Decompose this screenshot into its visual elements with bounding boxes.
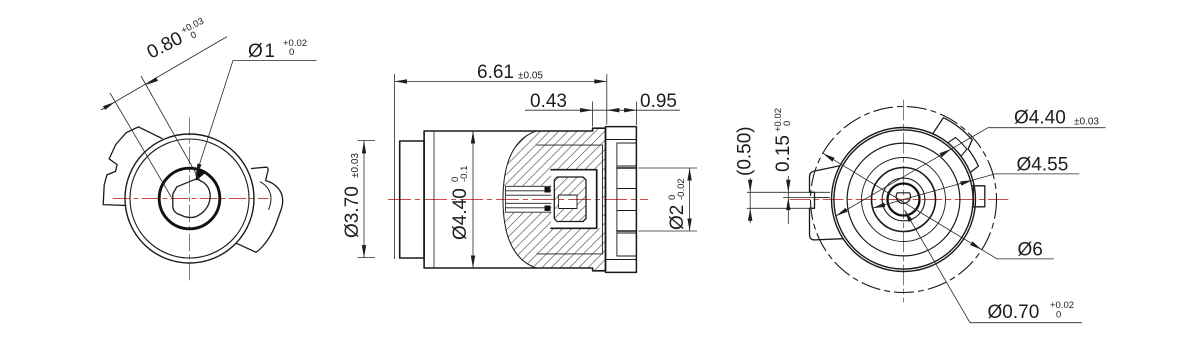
Ø3.70 text (rotated) — [342, 153, 363, 238]
svg-text:0.95: 0.95 — [640, 91, 677, 112]
centerline horizontal (red) — [790, 199, 1009, 201]
Ø4.40 text (rotated) — [450, 166, 471, 240]
outer circle — [125, 134, 254, 263]
0.80 text (rotated) — [144, 16, 211, 64]
left tab — [103, 127, 162, 206]
contact fingers — [506, 186, 552, 212]
svg-text:-0.02: -0.02 — [676, 178, 687, 200]
svg-text:Ø4.55: Ø4.55 — [1017, 154, 1069, 175]
(0.50) dim line — [749, 178, 751, 223]
circle Ø4.55 — [832, 128, 976, 272]
cavity outline — [551, 170, 597, 229]
svg-text:Ø2: Ø2 — [667, 205, 688, 230]
svg-text:Ø 1: Ø 1 — [248, 41, 275, 62]
svg-text:Ø4.40: Ø4.40 — [450, 188, 471, 240]
svg-text:±0.03: ±0.03 — [350, 153, 361, 178]
right small lug inner — [973, 186, 975, 205]
svg-text:0: 0 — [782, 121, 793, 126]
crimp block lower — [545, 206, 551, 212]
svg-text:0: 0 — [289, 47, 294, 58]
leaders right view — [823, 128, 1106, 323]
right tab inner edge — [260, 182, 271, 210]
Ø4.55 leader — [873, 174, 1080, 208]
svg-text:-0.1: -0.1 — [459, 166, 470, 182]
Ø4.40 leader arrows — [939, 147, 952, 157]
Ø2 arrows — [687, 168, 691, 181]
top-right lug step — [948, 138, 967, 157]
body tangent line — [433, 131, 435, 268]
(0.50) + 0.15 ext lines — [747, 176, 830, 224]
0.43/0.95 arrows — [580, 108, 593, 112]
left lug inner line — [815, 197, 829, 199]
Ø0.70 hole lines — [617, 189, 637, 211]
0.43/0.95 ext lines — [593, 102, 637, 127]
Ø3.70 arrows — [362, 141, 366, 154]
hatch plug — [554, 177, 586, 222]
right small lug — [972, 186, 985, 207]
inner edge right — [601, 145, 603, 254]
inner edge top — [537, 144, 602, 146]
svg-text:(0.50): (0.50) — [735, 126, 756, 176]
left lug — [810, 166, 844, 240]
0.80 arrow 1 — [103, 100, 116, 110]
svg-text:+0.02: +0.02 — [283, 38, 307, 49]
svg-text:0.43: 0.43 — [530, 91, 567, 112]
Ø4.40 arrows — [471, 131, 475, 144]
dim line — [101, 37, 227, 110]
Ø3.70 ext+dim lines — [358, 140, 376, 257]
svg-text:Ø0.70: Ø0.70 — [988, 302, 1040, 323]
Ø1 leader — [196, 61, 317, 177]
slot outline — [559, 195, 577, 209]
dashed circle Ø6 — [811, 107, 997, 293]
key polygon — [173, 179, 210, 218]
Ø6 leader — [823, 153, 1054, 259]
Ø2 text (rotated) — [667, 178, 688, 230]
hatch region main — [503, 128, 606, 271]
6.61 dim line — [395, 80, 607, 82]
bold ring r16 — [888, 184, 920, 216]
bold circle — [159, 168, 220, 229]
circle Ø4.40 — [834, 130, 973, 269]
6.61 arrows — [395, 79, 408, 83]
svg-text:Ø4.40: Ø4.40 — [1014, 108, 1066, 129]
top-right lug — [933, 118, 979, 173]
centerline vertical (red) — [903, 100, 905, 302]
0.15 text rotated — [773, 108, 794, 172]
0.15 arrows — [786, 180, 790, 193]
Ø0.70 leader — [905, 210, 1083, 323]
ring r32 — [872, 168, 936, 232]
svg-text:Ø3.70: Ø3.70 — [342, 186, 363, 238]
(0.50) text rotated — [735, 126, 756, 176]
flange recess lines — [617, 143, 637, 256]
small cylinder (Ø3.70) — [400, 141, 424, 258]
ring r21.4 — [882, 178, 925, 221]
Ø1 leader arrow — [194, 163, 202, 176]
0.15 dim line — [787, 176, 789, 224]
svg-text:+0.02: +0.02 — [1050, 300, 1074, 311]
svg-text:0.15: 0.15 — [773, 135, 794, 172]
right tab — [236, 167, 282, 252]
svg-text:0: 0 — [189, 29, 199, 41]
wedge notch — [196, 169, 205, 180]
Ø4.40 dim line — [472, 131, 474, 268]
Ø2 ext+dim lines — [638, 168, 697, 231]
svg-text:6.61: 6.61 — [477, 62, 514, 83]
centerline (red) — [388, 199, 648, 201]
plug outline — [554, 177, 586, 222]
ext line 2 — [141, 76, 201, 182]
Ø4.40 leader — [836, 128, 1106, 216]
Ø4.55 leader arrows — [960, 178, 973, 186]
Ø6 leader arrows — [970, 241, 983, 251]
centerline horizontal (red) — [113, 198, 268, 200]
flange inner lines — [606, 140, 637, 260]
main body (Ø4.40) — [424, 128, 605, 271]
dims middle — [358, 74, 698, 268]
Ø0.70 leader arrow — [903, 209, 913, 222]
flange rect — [606, 127, 637, 273]
svg-text:0.80: 0.80 — [144, 28, 186, 64]
stub Ø2 edges — [617, 168, 637, 231]
svg-text:±0.03: ±0.03 — [1074, 117, 1099, 128]
6.61 ext lines — [395, 74, 607, 259]
ring r56.4 — [847, 143, 960, 256]
dimension 0.80 — [101, 37, 227, 198]
crimp block upper — [545, 187, 551, 193]
center hole w/flat — [896, 193, 910, 204]
section break arc — [503, 131, 536, 268]
svg-text:±0.05: ±0.05 — [518, 71, 543, 82]
ext line 1 — [110, 93, 172, 198]
inner rim circle — [130, 139, 249, 258]
0.80 arrow 2 — [145, 77, 158, 87]
svg-text:0: 0 — [1056, 310, 1061, 321]
0.43/0.95 dim line — [525, 109, 680, 111]
inner edge bottom — [537, 253, 602, 255]
ring r42 — [862, 158, 946, 242]
svg-text:+0.02: +0.02 — [773, 108, 784, 132]
stub chamfer lines — [617, 166, 637, 233]
(0.50) arrows — [748, 180, 752, 193]
svg-text:Ø6: Ø6 — [1018, 239, 1043, 260]
centerline vertical (red) — [189, 118, 191, 283]
